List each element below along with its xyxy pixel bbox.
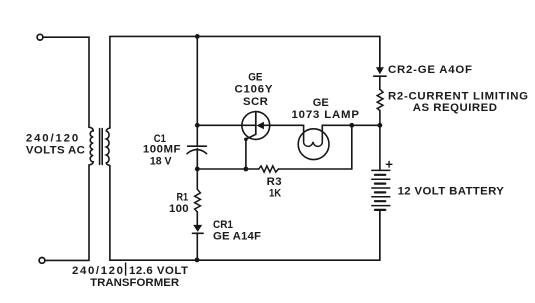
svg-text:VOLTS AC: VOLTS AC [26,145,85,157]
svg-text:AS REQUIRED: AS REQUIRED [413,102,497,114]
svg-text:GE: GE [248,71,263,83]
svg-text:TRANSFORMER: TRANSFORMER [90,277,179,289]
svg-text:100MF: 100MF [143,144,181,156]
svg-text:R2-CURRENT LIMITING: R2-CURRENT LIMITING [388,91,528,103]
svg-text:12.6 VOLT: 12.6 VOLT [129,265,188,277]
svg-text:GE: GE [313,97,329,109]
svg-text:240/120: 240/120 [26,132,78,144]
svg-text:R1: R1 [177,191,189,203]
svg-text:SCR: SCR [243,96,268,108]
svg-text:C106Y: C106Y [235,84,273,96]
svg-text:CR2-GE A4OF: CR2-GE A4OF [388,64,472,76]
svg-text:18 V: 18 V [150,156,172,168]
svg-text:1K: 1K [269,187,282,199]
svg-text:GE A14F: GE A14F [213,231,261,243]
svg-text:240/120: 240/120 [72,265,123,277]
svg-text:100: 100 [169,203,189,215]
svg-text:1073 LAMP: 1073 LAMP [292,109,360,121]
svg-text:12 VOLT BATTERY: 12 VOLT BATTERY [398,185,505,197]
svg-text:CR1: CR1 [213,219,234,231]
svg-text:R3: R3 [267,176,282,188]
